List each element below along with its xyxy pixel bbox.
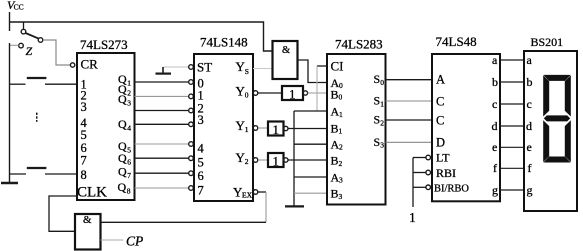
pin YS label [236, 59, 249, 76]
wire Q6 to encoder input 5 [135, 157, 189, 159]
pin Y2 label [236, 150, 249, 166]
svg-text:6: 6 [198, 169, 204, 183]
inverter G3 box [268, 153, 284, 167]
pin Q4 label [118, 117, 131, 133]
svg-text:0: 0 [380, 78, 384, 87]
svg-text:1: 1 [289, 86, 296, 101]
svg-text:S: S [245, 67, 249, 76]
bubble CR [70, 63, 74, 67]
svg-text:5: 5 [198, 155, 204, 169]
svg-text:S: S [374, 94, 381, 108]
svg-text:a: a [492, 53, 498, 67]
pin Q3 label [118, 92, 131, 108]
ground at ST pin [156, 67, 189, 74]
wire e [500, 146, 524, 148]
bubble input 4 [189, 142, 194, 147]
svg-text:4: 4 [198, 142, 205, 156]
svg-text:S: S [374, 135, 381, 149]
wire c [500, 103, 524, 105]
decoder U6 74LS48 box [432, 54, 500, 201]
svg-text:7: 7 [127, 171, 131, 180]
svg-text:6: 6 [127, 158, 131, 167]
svg-text:EX: EX [242, 190, 253, 199]
svg-text:ST: ST [197, 60, 212, 75]
bubble RBI [426, 170, 431, 175]
svg-text:b: b [492, 75, 498, 89]
switch K8 at input 8 [10, 168, 78, 174]
bubble G3 output [284, 158, 288, 162]
wire S3 to decoder D [386, 141, 433, 143]
svg-text:3: 3 [127, 98, 131, 107]
bubble BI/RBO [426, 185, 431, 190]
svg-text:&: & [282, 45, 290, 56]
svg-text:0: 0 [339, 93, 343, 102]
bubble input 3 [189, 122, 194, 127]
bubble input 5 [189, 156, 194, 161]
wire YEX down to AND gate U4 [265, 192, 267, 222]
pin A3 label [331, 170, 344, 184]
svg-text:3: 3 [81, 100, 87, 114]
svg-text:1: 1 [273, 122, 280, 137]
pin B3 label [331, 187, 343, 201]
bubble ST [189, 65, 194, 70]
bubble Y0 [253, 91, 258, 96]
wire Q8 to encoder input 7 [135, 187, 189, 189]
wire ground bus vertical [293, 111, 295, 206]
wire switch lower contact stub [10, 44, 19, 46]
svg-text:D: D [436, 136, 445, 150]
svg-text:CC: CC [14, 3, 24, 12]
svg-text:A: A [436, 73, 445, 87]
wire Q4 to encoder input 3 [135, 123, 189, 125]
wire S0 to decoder A [386, 79, 433, 81]
bubble input 6 [189, 171, 194, 176]
svg-text:BI/RBO: BI/RBO [434, 183, 469, 194]
svg-text:C: C [436, 94, 444, 108]
pin S1 label [374, 94, 385, 109]
bubble input 2 [189, 108, 194, 113]
pin S2 label [374, 113, 385, 128]
svg-text:Q: Q [118, 165, 127, 179]
pin Y1 label [236, 118, 249, 134]
svg-text:1: 1 [409, 210, 416, 225]
and-gate U4 clock box [75, 214, 101, 250]
svg-text:CI: CI [331, 58, 344, 73]
pin B2 label [331, 154, 343, 168]
wire ground rail left [9, 43, 11, 183]
wire Vcc stub [9, 12, 11, 31]
svg-text:4: 4 [127, 124, 131, 133]
svg-text:LT: LT [436, 151, 450, 165]
bubble input 1 [189, 94, 194, 99]
svg-text:B: B [331, 187, 339, 201]
svg-text:1: 1 [380, 99, 384, 108]
power Vcc label [7, 0, 24, 12]
wire S2 to decoder C [386, 119, 433, 121]
wire CLK to AND gate U4 [49, 196, 77, 231]
pin B0 label [331, 87, 343, 101]
seven-segment digit 8 [543, 75, 571, 163]
wire G1 to adder B0 [308, 92, 327, 94]
svg-text:Q: Q [118, 180, 127, 194]
svg-text:e: e [492, 140, 497, 154]
svg-text:3: 3 [339, 192, 343, 201]
and-gate U2 box [273, 41, 298, 79]
ground bus symbol [285, 205, 304, 207]
svg-text:B: B [331, 154, 339, 168]
wire G2 to adder B1 [288, 128, 327, 130]
svg-text:S: S [374, 72, 381, 86]
svg-text:Q: Q [118, 117, 127, 131]
svg-text:3: 3 [339, 176, 343, 185]
wire Q1 to encoder input 0 [135, 81, 189, 83]
svg-text:e: e [527, 140, 532, 154]
pin Q7 label [118, 165, 131, 181]
bubble LT [426, 155, 431, 160]
svg-text:5: 5 [127, 146, 131, 155]
svg-text:CP: CP [126, 234, 143, 249]
bubble Y1 [253, 126, 258, 131]
pin Y0 label [236, 84, 249, 100]
svg-text:2: 2 [339, 159, 343, 168]
switch K1 at input 1 [10, 78, 78, 84]
svg-text:2: 2 [380, 118, 384, 127]
svg-text:B: B [331, 87, 339, 101]
svg-text:Q: Q [118, 92, 127, 106]
svg-text:1: 1 [339, 127, 343, 136]
svg-text:1: 1 [273, 153, 280, 168]
svg-text:0: 0 [339, 81, 343, 90]
svg-text:1: 1 [245, 125, 249, 134]
svg-text:RBI: RBI [436, 166, 456, 180]
svg-text:f: f [493, 161, 497, 175]
bubble YEX [253, 190, 258, 195]
pin Q1 label [118, 72, 131, 88]
svg-text:1: 1 [127, 79, 131, 88]
wire CP input [101, 239, 124, 241]
inverter G2 box [268, 122, 284, 136]
wire A3 from ground bus [294, 176, 327, 178]
svg-text:74LS283: 74LS283 [335, 37, 383, 52]
svg-text:d: d [492, 119, 498, 133]
svg-text:3: 3 [198, 113, 204, 127]
svg-text:C: C [436, 113, 444, 127]
wire A2 from ground bus [294, 143, 327, 145]
wire S1 to decoder B [386, 100, 433, 102]
pin S3 label [374, 135, 385, 150]
svg-text:c: c [527, 97, 532, 111]
adder U5 74LS283 box [327, 54, 386, 205]
svg-text:Z: Z [26, 44, 33, 58]
svg-text:74LS273: 74LS273 [80, 37, 128, 52]
pin Q6 label [118, 151, 131, 167]
svg-text:2: 2 [127, 89, 131, 98]
svg-text:3: 3 [380, 141, 384, 150]
pin A1 label [331, 105, 344, 119]
wire Q3 to encoder input 2 [135, 110, 189, 112]
svg-text:&: & [83, 214, 92, 226]
wire Y0 to inverter [258, 92, 282, 94]
svg-text:2: 2 [245, 157, 249, 166]
wire YS to AND gate [253, 68, 273, 70]
svg-text:74LS48: 74LS48 [436, 34, 477, 49]
wire Y2 to inverter [258, 159, 268, 161]
wire Y1 to inverter [258, 127, 268, 129]
pin A0 label [331, 76, 344, 90]
wire CI to ground bus [316, 66, 318, 111]
svg-text:8: 8 [127, 187, 131, 196]
wire Q5 to encoder input 4 [135, 143, 189, 145]
svg-text:BS201: BS201 [531, 35, 564, 49]
pin Q5 label [118, 139, 131, 155]
wire LT RBI RBO tie [413, 158, 426, 208]
bubble input 0 [189, 80, 194, 85]
wire Q7 to encoder input 6 [135, 172, 189, 174]
wire U4 input from YEX [101, 221, 267, 223]
svg-text:7: 7 [198, 183, 204, 197]
wire B3 from ground bus [294, 192, 327, 194]
pin Q8 label [118, 180, 131, 196]
wire A1 to ground bus [294, 110, 327, 112]
wire f [500, 167, 524, 169]
wire CI stub [317, 65, 327, 67]
display DS1 BS201 box [524, 51, 577, 211]
svg-text:S: S [374, 113, 381, 127]
svg-text:b: b [527, 75, 533, 89]
inverter G1 box [282, 86, 303, 100]
bubble G1 output [303, 91, 307, 95]
wire G3 to adder B2 [288, 159, 327, 161]
pin B1 label [331, 121, 343, 135]
switch S (SPDT to CR) [19, 22, 43, 48]
encoder U3 74LS148 box [194, 54, 253, 201]
register U1 74LS273 box [77, 53, 135, 200]
pin A2 label [331, 137, 344, 151]
svg-text:0: 0 [245, 90, 249, 99]
svg-text:74LS148: 74LS148 [200, 35, 248, 50]
wire Q2 to encoder input 1 [135, 95, 189, 97]
pin YEX label [233, 185, 253, 200]
svg-text:g: g [492, 183, 498, 197]
wire YEX to clock AND gate [258, 191, 266, 193]
bubble G2 output [284, 126, 288, 130]
ground left rail [1, 182, 18, 184]
wire U2 output to adder A0 [298, 60, 328, 83]
svg-text:d: d [526, 119, 532, 133]
wire d [500, 125, 524, 127]
svg-text:8: 8 [81, 168, 87, 182]
pin S0 label [374, 72, 385, 87]
wire switch to CR pin [43, 40, 70, 65]
svg-text:7: 7 [81, 154, 87, 168]
svg-text:f: f [528, 161, 532, 175]
svg-text:1: 1 [339, 110, 343, 119]
svg-text:B: B [331, 121, 339, 135]
svg-text:2: 2 [339, 143, 343, 152]
dots ellipsis switches [36, 113, 38, 122]
bubble input 7 [189, 186, 194, 191]
svg-text:CLK: CLK [77, 184, 107, 200]
wire a [500, 59, 524, 61]
wire b [500, 81, 524, 83]
wire Vcc rail to AND gate U2 [10, 22, 273, 51]
svg-text:a: a [527, 53, 533, 67]
svg-text:CR: CR [81, 57, 99, 72]
svg-text:c: c [492, 97, 497, 111]
wire g [500, 189, 524, 191]
svg-text:g: g [527, 183, 533, 197]
pin Q2 label [118, 82, 131, 98]
svg-text:Q: Q [118, 151, 127, 165]
bubble Y2 [253, 158, 258, 163]
